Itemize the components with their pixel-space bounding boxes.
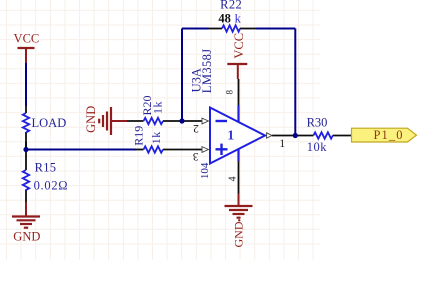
svg-text:R22: R22: [220, 0, 242, 12]
svg-text:1k: 1k: [149, 131, 163, 144]
svg-text:R30: R30: [307, 115, 328, 129]
svg-text:LOAD: LOAD: [32, 116, 67, 130]
svg-text:VCC: VCC: [14, 32, 40, 46]
svg-text:k: k: [235, 11, 242, 25]
svg-text:3: 3: [193, 150, 199, 162]
svg-text:R15: R15: [35, 161, 57, 175]
svg-text:1: 1: [227, 128, 234, 143]
svg-text:LM358J: LM358J: [200, 48, 214, 93]
svg-text:4: 4: [228, 177, 239, 182]
svg-text:10k: 10k: [307, 140, 328, 154]
svg-text:GND: GND: [13, 229, 40, 243]
svg-text:GND: GND: [84, 106, 98, 133]
svg-text:0.02Ω: 0.02Ω: [34, 179, 69, 193]
svg-text:8: 8: [225, 89, 235, 94]
svg-text:R19: R19: [131, 126, 145, 146]
svg-text:2: 2: [193, 122, 199, 134]
svg-text:1: 1: [279, 138, 285, 150]
svg-text:VCC: VCC: [232, 33, 246, 59]
svg-text:104: 104: [199, 162, 211, 179]
svg-text:GND: GND: [231, 221, 245, 247]
svg-text:1k: 1k: [151, 101, 165, 114]
svg-text:48: 48: [218, 11, 231, 25]
svg-text:P1_0: P1_0: [373, 128, 403, 142]
